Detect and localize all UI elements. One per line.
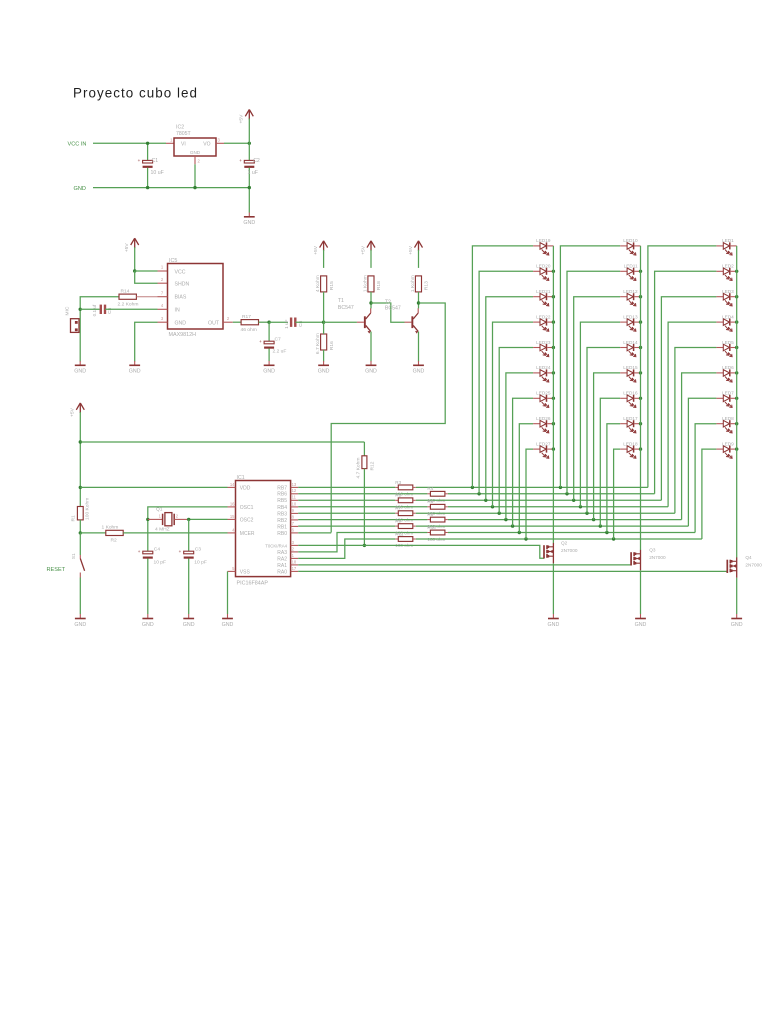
LED LED24 [533,365,553,382]
wire LED anode riser [587,348,620,514]
supply +5V arrow (PIC rail) [79,404,81,413]
svg-text:GND: GND [190,150,201,155]
node cathode rail junction [552,397,555,400]
pin stub IC1 OSC2 pin 15 [228,518,236,520]
node cathode rail junction [552,320,555,323]
svg-text:Q2: Q2 [561,541,568,546]
LED LED22 [533,314,553,331]
svg-text:+5V: +5V [239,114,245,124]
svg-text:GND: GND [74,186,86,192]
svg-text:RB1: RB1 [277,524,287,530]
wire GND rail (regulator) [93,187,249,189]
svg-text:T0CKI/RA4: T0CKI/RA4 [265,543,287,548]
LED LED13 [620,314,640,331]
wire IC2 output to +5V rail [224,142,249,144]
svg-text:Q3: Q3 [649,548,656,553]
pin stub IC5 VCC [158,270,168,272]
ground (T1) [370,361,372,365]
LED LED1 [716,238,736,255]
wire R18 to T1 collector [370,292,372,309]
svg-text:RB4: RB4 [277,505,287,511]
svg-text:R11: R11 [395,531,404,536]
pin stub IC1 RB2 pin 8 [291,519,299,521]
wire VCC IN to IC2 [93,142,166,144]
pin stub IC1 VSS pin 5 [228,570,236,572]
svg-text:R6: R6 [427,499,433,504]
svg-text:C2: C2 [253,158,260,164]
wire LED anode riser [513,398,534,526]
svg-text:2.2 uF: 2.2 uF [273,349,287,355]
svg-text:+: + [179,549,182,554]
node cathode rail junction [735,346,738,349]
wire +5V to R18 [370,250,372,268]
wire T2 collector to PIC RB0 [331,303,445,533]
pin stub T1 base [357,321,364,323]
svg-text:LED10: LED10 [623,238,638,243]
svg-text:LED22: LED22 [536,314,551,319]
LED LED9 [716,441,736,458]
junction row to column1 [471,486,474,489]
svg-text:GND: GND [222,622,234,628]
node IC5 VCC junction [133,269,136,272]
ground (Q3) [640,614,642,618]
svg-text:18: 18 [292,559,297,564]
svg-text:LED26: LED26 [536,416,551,421]
svg-text:10 uF: 10 uF [151,170,164,176]
wire R4 output row [448,493,655,495]
wire T1 collector to T2 base [371,303,405,322]
supply +5V arrow (R15) [323,242,325,251]
node cathode rail junction [639,295,642,298]
wire crystal right / OSC2 row [174,518,189,520]
svg-text:LED5: LED5 [722,340,734,345]
LED LED21 [533,289,553,306]
svg-text:LED27: LED27 [536,441,551,446]
wire OUT to R17 [233,321,241,323]
node cathode rail junction [639,447,642,450]
svg-text:R16: R16 [329,341,335,350]
node T1 collector junction [369,301,372,304]
junction row to column1 [504,518,507,521]
wire Q4 source to ground [736,578,738,614]
pin stub IC1 RB4 pin 10 [291,506,299,508]
wire Q2 source to ground [552,563,554,614]
wire LED anode riser [668,322,716,507]
svg-text:RB5: RB5 [277,498,287,504]
node cathode rail junction [735,422,738,425]
wire LED anode riser [661,297,716,501]
svg-text:LED8: LED8 [722,416,734,421]
pin stub IC1 RA3 pin 2 [291,551,299,553]
ground (Q4) [736,614,738,618]
wire R6 output row [448,506,668,508]
wire RB1 to R9 [298,525,395,527]
svg-text:LED15: LED15 [623,365,638,370]
node cathode rail junction [552,270,555,273]
svg-text:R2: R2 [111,537,118,543]
node GND junctions [146,186,149,189]
svg-text:Proyecto cubo led: Proyecto cubo led [73,86,198,101]
svg-text:1 Kohm: 1 Kohm [362,275,368,292]
transistor Q2 2N7000 [543,545,545,558]
LED LED23 [533,340,553,357]
svg-text:LED7: LED7 [722,391,734,396]
capacitor C4 [143,551,153,554]
svg-text:S1: S1 [71,553,77,559]
pin stub IC2 VI [166,142,174,144]
resistor R12 [363,442,365,456]
node +5V junction at C2 top [248,142,251,145]
pin stub IC1 T0CKI/RA4 pin 3 [291,544,299,546]
wire VCC row [135,270,158,272]
wire RB6 to R4 [298,493,427,495]
svg-text:Q1: Q1 [156,507,163,513]
svg-text:6.7 Kohm: 6.7 Kohm [315,333,321,354]
wire MCLR row left [80,532,106,534]
junction row to column1 [524,537,527,540]
pin stub IC1 RB5 pin 11 [291,499,299,501]
svg-text:PIC16F84AP: PIC16F84AP [237,580,269,586]
svg-text:4.7 Kohm: 4.7 Kohm [356,458,362,479]
wire LED anode riser [526,449,533,539]
svg-text:+: + [239,158,242,163]
svg-text:4 MHZ: 4 MHZ [155,526,170,532]
svg-text:LED23: LED23 [536,340,551,345]
transistor Q3 2N7000 [630,552,632,565]
svg-text:GND: GND [365,369,377,375]
svg-text:RB7: RB7 [277,485,287,491]
wire GND pin to ground [135,322,158,361]
junction row to column1 [511,524,514,527]
node C1 top junction [146,142,149,145]
svg-text:IC5: IC5 [169,258,177,264]
capacitor C5 [100,305,102,314]
wire MIC to C5 [80,308,100,310]
pin stub IC5 GND [158,321,168,323]
wire LED anode riser [519,424,533,533]
resistor R7 [395,512,398,514]
resistor R15 [321,276,327,292]
svg-text:RA3: RA3 [277,550,287,556]
svg-text:+5V: +5V [408,245,414,255]
wire cathode rail column3 [736,246,738,558]
resistor R11 [395,538,398,540]
wire LED anode riser [580,322,620,507]
LED LED15 [620,365,640,382]
wire LED anode riser [560,246,620,488]
resistor R17 [241,320,258,325]
svg-text:IC1: IC1 [237,475,245,481]
pin stub IC2 GND [194,156,196,164]
svg-text:0.1 uf: 0.1 uf [92,304,97,316]
junction row to column1 [484,499,487,502]
svg-text:R12: R12 [369,461,375,470]
wire C6 to R16 node [295,321,323,323]
resistor R8 [427,519,430,521]
node cathode rail junction [639,397,642,400]
wire R7 output row [416,512,675,514]
wire RA0 row to Q4 gate [298,570,727,572]
pin stub IC1 RB6 pin 12 [291,493,299,495]
wire RA3 jog to R10 [298,533,427,552]
wire LED anode riser [655,271,717,494]
svg-text:MIC: MIC [65,306,71,315]
svg-text:C6: C6 [298,320,304,327]
junction row to column2 [599,524,602,527]
svg-text:7805T: 7805T [176,131,192,137]
svg-text:VDD: VDD [240,485,251,491]
resistor R3 [395,486,398,488]
svg-text:MAX9812H: MAX9812H [169,332,197,338]
svg-text:2.2 Kohm: 2.2 Kohm [118,301,139,307]
svg-text:BIAS: BIAS [175,295,187,301]
svg-text:12: 12 [292,488,297,493]
resistor R16 [321,334,327,350]
resistor R5 [395,499,398,501]
wire R5 output row [416,499,662,501]
LED LED16 [620,391,640,408]
svg-text:OSC2: OSC2 [240,517,254,523]
wire LED anode riser [688,398,716,526]
wire left rail to BIAS row [80,297,119,362]
svg-text:R7: R7 [395,506,401,511]
transistor T2 BC547 [411,316,413,328]
junction row to column2 [605,531,608,534]
LED LED17 [620,416,640,433]
resistor R18 [368,276,374,292]
LED LED11 [620,264,640,281]
svg-text:RB3: RB3 [277,511,287,517]
wire R9 output row [416,525,689,527]
LED LED27 [533,441,553,458]
pin stub IC5 OUT [223,321,233,323]
svg-text:GND: GND [183,622,195,628]
junction row to column2 [579,505,582,508]
node cathode rail junction [552,371,555,374]
wire LED anode riser [567,271,620,494]
svg-text:GND: GND [74,369,86,375]
node MCLR junction [79,531,82,534]
pin stub IC5 SHDN [158,282,168,284]
pin stub IC1 VDD pin 14 [228,486,236,488]
wire RA1 row to Q3 gate [298,564,631,566]
pin stub IC1 RA0 pin 17 [291,570,299,572]
svg-text:VSS: VSS [240,569,251,575]
svg-text:RA2: RA2 [277,556,287,562]
ground (Q2) [552,614,554,618]
svg-text:LED1: LED1 [722,238,734,243]
pin stub IC5 IN [158,308,168,310]
svg-text:VCC IN: VCC IN [68,142,87,148]
junction row to column1 [518,531,521,534]
wire R17 to C7 node [259,321,270,323]
svg-text:C3: C3 [195,547,202,553]
capacitor C7 [268,322,270,341]
node cathode rail junction [552,447,555,450]
svg-text:10: 10 [292,501,297,506]
pin stub IC1 RA1 pin 18 [291,564,299,566]
ground (C4) [147,614,149,618]
microcontroller IC1 PIC16F84AP [236,481,291,577]
wire LED anode riser [675,348,717,514]
node R12 RA4 junction [363,544,366,547]
node C7 junction [267,321,270,324]
node cathode rail junction [735,320,738,323]
svg-text:LED18: LED18 [623,441,638,446]
svg-text:R17: R17 [242,314,251,320]
capacitor C1 [147,143,149,160]
svg-text:GND: GND [548,622,560,628]
LED LED25 [533,391,553,408]
svg-text:LED6: LED6 [722,365,734,370]
node R16 junction [322,321,325,324]
svg-text:RB0: RB0 [277,531,287,537]
svg-text:LED3: LED3 [722,289,734,294]
svg-text:C1: C1 [152,158,159,164]
svg-text:GND: GND [175,321,187,327]
switch S1 [79,533,81,555]
wire cathode rail column1 [552,246,554,543]
svg-text:C4: C4 [154,547,161,553]
pin stub T2 base [405,321,412,323]
node cathode rail junction [735,397,738,400]
node rail to VDD row [79,486,82,489]
svg-text:LED2: LED2 [722,264,734,269]
LED LED10 [620,238,640,255]
pin stub IC1 RB1 pin 7 [291,525,299,527]
LED LED8 [716,416,736,433]
svg-text:LED14: LED14 [623,340,638,345]
svg-text:GND: GND [74,622,86,628]
svg-text:+5V: +5V [360,245,366,255]
node cathode rail junction [639,371,642,374]
svg-text:R3: R3 [395,480,401,485]
wire +5V to R13 [418,250,420,268]
svg-text:17: 17 [292,566,297,571]
svg-text:1 uF: 1 uF [284,319,289,329]
ground (VSS) [227,614,229,618]
node T2 collector junction [417,301,420,304]
svg-text:RESET: RESET [47,567,66,573]
wire +5V to R15 [323,250,325,268]
node cathode rail junction [639,346,642,349]
svg-text:GND: GND [731,622,743,628]
wire IC2 GND pin down [194,164,196,187]
wire LED anode riser [479,271,533,494]
pin stub IC1 RA2 pin 1 [291,557,299,559]
svg-text:C5: C5 [107,307,113,314]
svg-text:LED19: LED19 [536,238,551,243]
svg-text:LED9: LED9 [722,441,734,446]
wire LED anode riser [702,449,717,539]
ground (R16) [323,361,325,365]
wire LED anode riser [486,297,533,501]
LED LED6 [716,365,736,382]
wire node to R16 [323,322,325,334]
junction row to column2 [572,499,575,502]
svg-text:Q4: Q4 [745,555,752,560]
svg-text:LED25: LED25 [536,391,551,396]
wire T1 emitter to ground [370,332,372,362]
resistor R10 [427,532,430,534]
transistor T1 BC547 [364,316,366,328]
wire LED anode riser [614,449,621,539]
junction row to column2 [592,518,595,521]
svg-text:LED24: LED24 [536,365,551,370]
svg-text:13: 13 [292,482,297,487]
transistor Q4 2N7000 [726,560,728,573]
wire LED anode riser [574,297,621,501]
ground (T2) [418,361,420,365]
LED LED14 [620,340,640,357]
wire LED anode riser [493,322,534,507]
capacitor C3 [188,519,190,551]
junction row to column2 [612,537,615,540]
svg-text:OSC1: OSC1 [240,505,254,511]
capacitor C2 [244,160,254,163]
svg-text:1 Kohm: 1 Kohm [102,525,119,531]
svg-text:GND: GND [129,369,141,375]
wire +5V to IC5 VCC [134,247,136,271]
wire C7 node to C6 [269,321,288,323]
svg-text:R8: R8 [427,512,433,517]
wire rail to R12 top [80,441,364,443]
LED LED20 [533,264,553,281]
ground (MIC) [79,361,81,365]
svg-text:2N7000: 2N7000 [745,563,762,568]
junction row to column1 [477,492,480,495]
svg-text:+: + [138,158,141,163]
resistor R2 [106,530,123,535]
wire R14 to BIAS pin [136,296,157,298]
svg-text:14: 14 [230,482,235,487]
pin stub IC1 MCER pin 4 [228,532,236,534]
wire R3 output row [416,486,648,488]
resistor R4 [427,493,430,495]
svg-text:LED16: LED16 [623,391,638,396]
node cathode rail junction [639,422,642,425]
wire LED anode riser [695,424,716,533]
node MIC junction [79,308,82,311]
pin stub IC5 BIAS [158,296,168,298]
LED LED26 [533,416,553,433]
wire R13 to T2 collector [418,292,420,309]
pin stub IC1 OSC1 pin 16 [228,506,236,508]
svg-text:LED11: LED11 [624,264,638,269]
LED LED2 [716,264,736,281]
svg-text:BC547: BC547 [385,305,401,311]
wire LED anode riser [472,246,533,488]
resistor R13 [415,276,421,292]
crystal Q1 4MHZ [162,514,164,525]
LED LED18 [620,441,640,458]
svg-text:2N7000: 2N7000 [561,548,578,553]
svg-text:LED4: LED4 [722,314,734,319]
ground (IC5) [134,361,136,365]
pin stub IC1 RB7 pin 13 [291,486,299,488]
wire RB4 to R6 [298,506,427,508]
svg-text:LED12: LED12 [623,289,638,294]
svg-text:GND: GND [263,369,275,375]
svg-text:SHDN: SHDN [175,282,190,288]
svg-text:LED20: LED20 [536,264,551,269]
svg-text:C7: C7 [275,336,282,342]
svg-text:15: 15 [230,514,235,519]
svg-text:BC547: BC547 [338,305,354,311]
wire LED anode riser [600,398,620,526]
svg-text:R13: R13 [424,281,430,290]
resistor R6 [427,506,430,508]
